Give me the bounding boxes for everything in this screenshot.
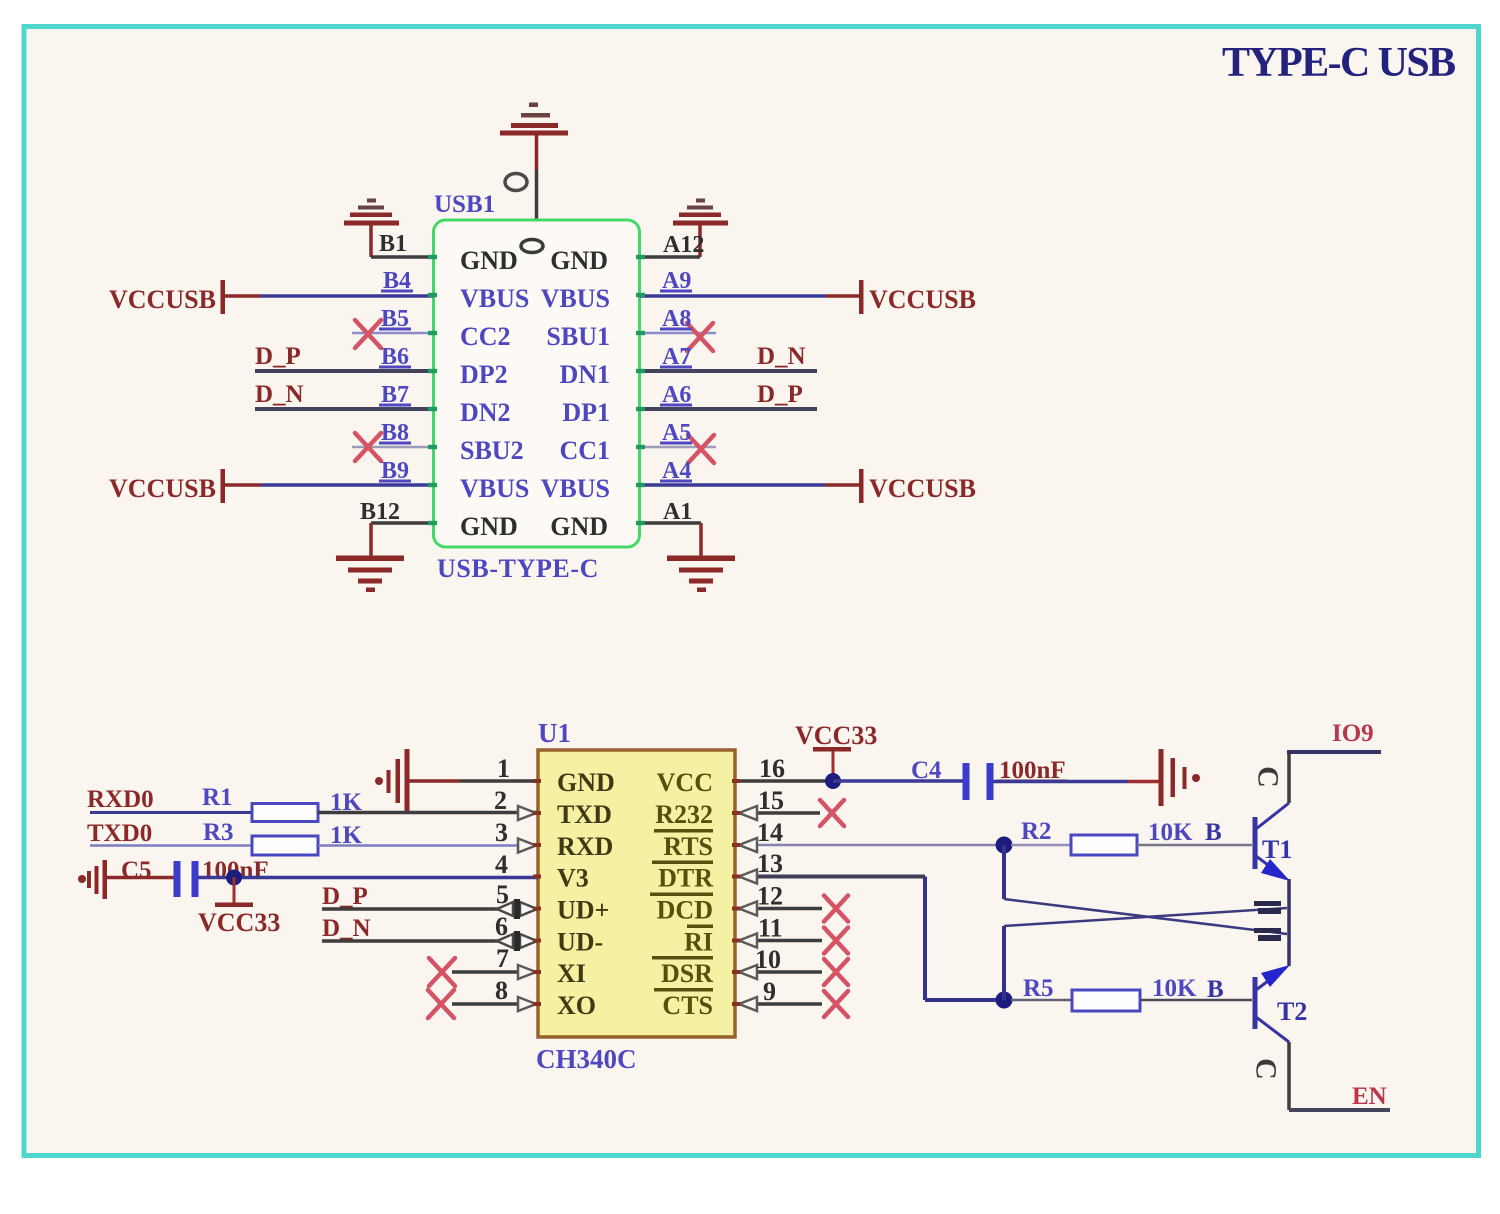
svg-text:5: 5 [496, 880, 509, 909]
svg-text:VBUS: VBUS [541, 284, 610, 313]
ground (pin 1) [375, 749, 410, 811]
svg-text:TXD: TXD [557, 800, 612, 829]
wire pin 15 (stub) [735, 811, 820, 815]
svg-text:16: 16 [759, 754, 785, 783]
pin 2 input arrow [518, 806, 536, 820]
resistor R5 [1072, 990, 1140, 1011]
connector pin stubs (ticks) [428, 255, 645, 525]
svg-text:USB-TYPE-C: USB-TYPE-C [437, 554, 599, 583]
svg-text:4: 4 [495, 850, 508, 879]
power port VCCUSB (upper left) [109, 280, 261, 314]
wire junction to R5 [1011, 999, 1072, 1002]
wire junction to C4 [833, 779, 963, 783]
svg-text:1: 1 [497, 754, 510, 783]
svg-text:CC1: CC1 [559, 436, 610, 465]
svg-text:D_P: D_P [322, 883, 368, 910]
wire pin 16 (VCC) [735, 779, 833, 783]
wire pin 11 (stub) [735, 939, 822, 943]
transistor T2 [1253, 965, 1291, 1042]
svg-text:D_N: D_N [255, 381, 304, 408]
power port VCC33 (right) [795, 721, 877, 781]
svg-text:GND: GND [460, 246, 518, 275]
wire T1 collector up [1287, 752, 1291, 803]
no-connect X at pin 7 [429, 958, 455, 986]
net tag E2 [1254, 928, 1281, 941]
svg-text:9: 9 [763, 977, 776, 1006]
svg-text:A12: A12 [663, 232, 704, 258]
svg-text:XI: XI [557, 959, 586, 988]
no-connect X at pin 12 [824, 896, 848, 922]
wire pin B5 (stub) [352, 332, 434, 335]
pin 10 arrow [739, 965, 757, 979]
no-connect X at pin 9 [824, 991, 848, 1017]
ground (C4 right) [1159, 749, 1201, 806]
no-connect X at A8 [687, 323, 713, 351]
pin label A5 [660, 420, 692, 446]
svg-text:VCCUSB: VCCUSB [109, 474, 216, 503]
no-connect X at pin 10 [824, 959, 848, 985]
svg-text:DP2: DP2 [460, 360, 508, 389]
wire pin A12 [640, 255, 701, 259]
pin label B9 [379, 458, 411, 484]
svg-text:R3: R3 [203, 819, 234, 846]
svg-text:DN2: DN2 [460, 398, 511, 427]
value 100nF (C4) [997, 757, 1067, 784]
wire R1 to pin 2 [318, 811, 538, 815]
junction (R5 node) [996, 992, 1013, 1009]
wire R5 to T2 base [1140, 999, 1252, 1002]
svg-text:DCD: DCD [657, 896, 713, 925]
svg-text:T2: T2 [1277, 997, 1307, 1026]
svg-text:CH340C: CH340C [536, 1044, 637, 1074]
svg-text:12: 12 [757, 882, 783, 911]
wire pin 5 [322, 907, 538, 911]
net tag E1 [1254, 901, 1281, 914]
svg-text:VCC33: VCC33 [198, 908, 280, 937]
pin label A9 [660, 268, 692, 294]
wire pin 14 to junction [735, 844, 998, 847]
svg-text:GND: GND [460, 512, 518, 541]
ground (USB shield, top) [500, 103, 568, 136]
IC pin names (left) [557, 768, 615, 1020]
svg-text:SBU1: SBU1 [546, 322, 610, 351]
wire pin B12 [371, 521, 434, 525]
svg-text:TXD0: TXD0 [87, 820, 152, 847]
IC pin stubs (ticks) [533, 779, 740, 1006]
no-connect X at pin 11 [824, 928, 848, 954]
svg-text:D_N: D_N [757, 343, 806, 370]
wire R2 to T1 base [1137, 844, 1252, 847]
svg-text:VBUS: VBUS [460, 284, 529, 313]
svg-text:10K: 10K [1148, 819, 1193, 846]
ground (pin B12) [336, 523, 404, 592]
svg-text:14: 14 [757, 818, 783, 847]
svg-text:13: 13 [757, 849, 783, 878]
power port VCCUSB (lower right) [825, 469, 976, 503]
pin 5 bidirectional arrow [497, 899, 537, 919]
wire pin 12 (stub) [735, 907, 822, 911]
svg-text:R232: R232 [655, 800, 713, 829]
wire pin 10 (stub) [735, 970, 822, 974]
svg-text:C: C [1252, 766, 1285, 788]
ground (pin A1) [667, 523, 735, 592]
svg-text:C: C [1250, 1058, 1283, 1080]
svg-text:3: 3 [495, 818, 508, 847]
wire pin A4 [640, 483, 826, 487]
pin label A4 [660, 458, 692, 484]
svg-text:7: 7 [496, 944, 509, 973]
wire T1 emitter down [1287, 879, 1291, 966]
svg-text:VBUS: VBUS [460, 474, 529, 503]
svg-text:CTS: CTS [662, 991, 713, 1020]
svg-text:EN: EN [1352, 1083, 1387, 1110]
pin label A6 [660, 382, 692, 408]
svg-text:R2: R2 [1021, 818, 1052, 845]
pin 11 arrow [739, 934, 757, 948]
svg-text:RI: RI [684, 928, 713, 957]
svg-text:USB1: USB1 [434, 191, 495, 218]
wire TXD0 to R3 [90, 844, 252, 847]
ground (pin A12) [673, 199, 728, 258]
svg-text:DTR: DTR [658, 864, 713, 893]
svg-text:VCCUSB: VCCUSB [869, 474, 976, 503]
IC pin names (right) [650, 768, 713, 1020]
svg-text:RTS: RTS [663, 832, 713, 861]
svg-text:B: B [1205, 819, 1222, 846]
svg-text:T1: T1 [1262, 835, 1292, 864]
wire pin B1 [371, 255, 434, 259]
pin 0 label (inside) [521, 240, 543, 253]
wire pin A6 [640, 407, 818, 411]
no-connect X at B5 [355, 320, 381, 348]
pin 9 arrow [739, 997, 757, 1011]
svg-text:VCCUSB: VCCUSB [869, 285, 976, 314]
wire pin A7 [640, 369, 818, 373]
pin label A7 [660, 344, 692, 370]
svg-text:6: 6 [495, 912, 508, 941]
svg-text:11: 11 [758, 914, 783, 943]
pin 12 arrow [739, 902, 757, 916]
wire pin B9 [261, 483, 434, 487]
connector U-SB1 body [434, 220, 640, 547]
svg-text:DN1: DN1 [559, 360, 610, 389]
svg-text:10K: 10K [1152, 975, 1197, 1002]
svg-text:V3: V3 [557, 864, 589, 893]
pin label B7 [379, 382, 411, 408]
wire junction to R2 [1011, 844, 1071, 847]
wire pin B8 (stub) [352, 446, 434, 449]
pin 6 bidirectional arrow [497, 931, 537, 951]
svg-text:CC2: CC2 [460, 322, 511, 351]
pin 3 input arrow [518, 839, 536, 853]
wire pin 6 [322, 939, 538, 943]
ground (pin B1) [344, 199, 399, 258]
power port VCCUSB (lower left) [109, 469, 261, 503]
svg-text:R1: R1 [202, 784, 233, 811]
no-connect X at B8 [355, 433, 381, 461]
svg-text:A1: A1 [663, 499, 692, 525]
svg-text:UD+: UD+ [557, 896, 609, 925]
svg-text:D_N: D_N [322, 915, 371, 942]
svg-text:TYPE-C USB: TYPE-C USB [1222, 40, 1455, 86]
junction (VCC33/C4) [825, 773, 841, 789]
wire C5 to pin 4 [198, 876, 538, 880]
svg-text:B12: B12 [360, 499, 400, 525]
svg-text:15: 15 [758, 786, 784, 815]
no-connect X at A5 [688, 435, 714, 463]
wire pin A8 (stub) [640, 332, 717, 335]
svg-text:10: 10 [755, 945, 781, 974]
svg-text:D_P: D_P [255, 343, 301, 370]
pin label B4 [381, 268, 413, 294]
pin label B8 [379, 420, 411, 446]
wire pin B7 [255, 407, 434, 411]
power port VCC33 (left) [198, 877, 280, 937]
svg-text:U1: U1 [538, 718, 571, 748]
svg-text:2: 2 [494, 786, 507, 815]
wire pin 9 (stub) [735, 1002, 822, 1006]
svg-text:XO: XO [557, 991, 596, 1020]
svg-text:C5: C5 [121, 857, 152, 884]
svg-text:RXD0: RXD0 [87, 786, 154, 813]
svg-text:C4: C4 [911, 757, 942, 784]
resistor R3 [252, 836, 318, 855]
wire T2 collector down [1289, 1042, 1390, 1110]
svg-text:VCCUSB: VCCUSB [109, 285, 216, 314]
transistor T1 [1253, 803, 1291, 881]
pin 0 label (shield) [505, 174, 527, 191]
wire R2-node down + cross to T2 emitter [1004, 845, 1287, 934]
wire R3 to pin 3 [318, 844, 538, 847]
pin label B6 [379, 344, 411, 370]
wire pin 8 [452, 1002, 538, 1006]
wire pin A9 [640, 294, 826, 298]
svg-text:DSR: DSR [661, 959, 713, 988]
no-connect X at pin 15 [820, 800, 844, 826]
junction (VCC33 tap) [226, 870, 242, 886]
svg-text:GND: GND [550, 246, 608, 275]
connector pin names (right column) [541, 246, 610, 541]
capacitor C4 [963, 763, 994, 800]
svg-text:8: 8 [495, 976, 508, 1005]
pin 7 input arrow [518, 965, 536, 979]
pin label B5 [379, 306, 411, 332]
wire pin 13 route [735, 877, 1000, 1001]
pin label A8 [660, 306, 692, 332]
svg-text:VBUS: VBUS [541, 474, 610, 503]
wire pin 1 [409, 779, 538, 783]
svg-text:R5: R5 [1023, 975, 1054, 1002]
svg-text:UD-: UD- [557, 928, 603, 957]
connector pin names (left column) [460, 246, 529, 541]
IC U1 body (CH340C) [538, 750, 735, 1037]
wire pin A5 (stub) [640, 446, 717, 449]
wire pin A1 [640, 521, 702, 525]
wire pin B6 [255, 369, 434, 373]
svg-text:RXD: RXD [557, 832, 613, 861]
svg-text:SBU2: SBU2 [460, 436, 524, 465]
pin 14 arrow [739, 838, 757, 852]
wire pin 7 [452, 970, 538, 974]
pin 15 arrow [739, 806, 757, 820]
svg-text:VCC: VCC [657, 768, 713, 797]
wire RXD0 to R1 [90, 811, 252, 814]
svg-text:D_P: D_P [757, 381, 803, 408]
svg-text:B1: B1 [379, 231, 407, 257]
no-connect X at pin 8 [428, 990, 454, 1018]
wire pin B4 [261, 294, 434, 298]
svg-text:IO9: IO9 [1332, 720, 1374, 747]
svg-text:VCC33: VCC33 [795, 721, 877, 750]
wire shield stem [535, 135, 539, 221]
wire IO9 [1287, 750, 1381, 754]
ground (C5 left) [78, 860, 107, 899]
svg-text:GND: GND [557, 768, 615, 797]
capacitor C5 [174, 861, 199, 897]
power port VCCUSB (upper right) [825, 280, 976, 314]
pin 13 arrow [739, 870, 757, 884]
wire gnd to C5 [107, 876, 175, 880]
junction (R2 node) [996, 837, 1013, 854]
svg-text:GND: GND [550, 512, 608, 541]
pin 8 input arrow [518, 997, 536, 1011]
wire C4 to ground [993, 780, 1160, 784]
wire R5-node up + cross to T1 emitter [1004, 908, 1287, 1000]
svg-text:DP1: DP1 [562, 398, 610, 427]
resistor R1 [252, 804, 318, 822]
resistor R2 [1071, 835, 1137, 855]
